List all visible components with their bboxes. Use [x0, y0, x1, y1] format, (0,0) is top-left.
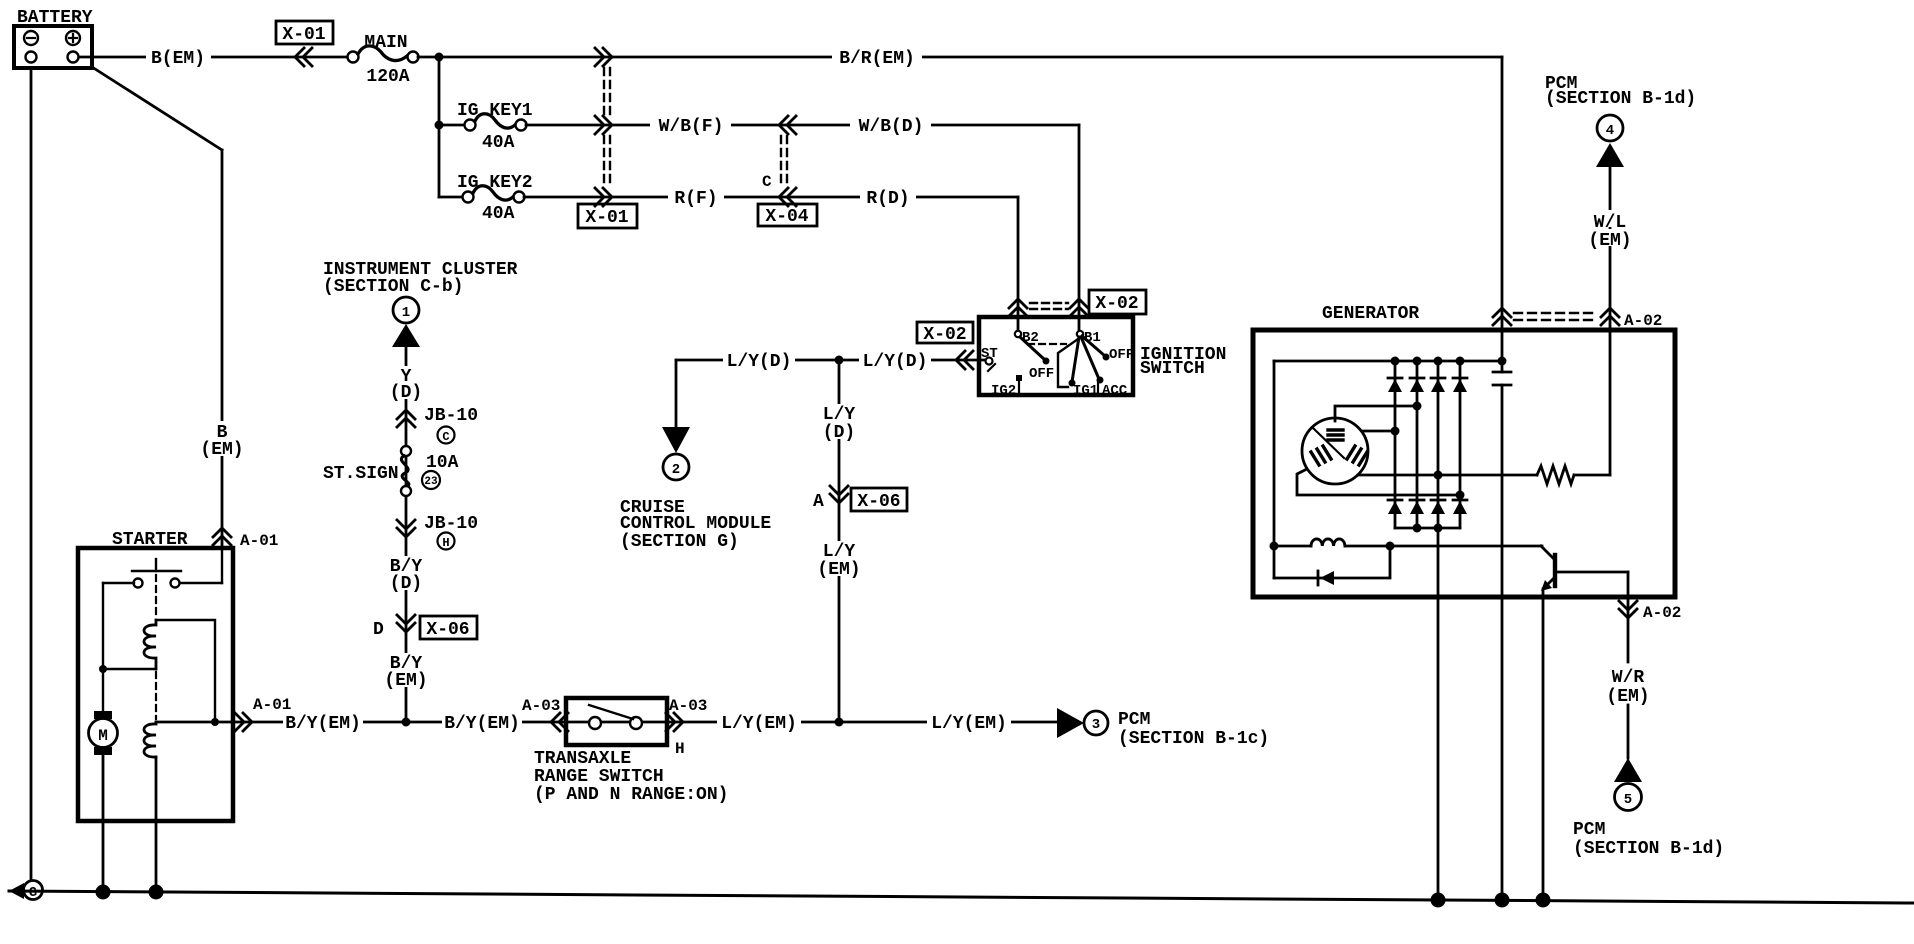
svg-text:X-02: X-02 — [1095, 294, 1138, 314]
node — [1386, 542, 1395, 551]
svg-text:B/Y(EM): B/Y(EM) — [285, 714, 361, 734]
svg-text:SWITCH: SWITCH — [1140, 359, 1205, 379]
switch blade — [589, 705, 633, 719]
wire branch to ignition fuses — [438, 57, 441, 197]
node — [1413, 524, 1422, 533]
arrow to instrument cluster — [392, 324, 420, 347]
transaxle range switch — [566, 698, 667, 745]
wire B(EM) battery to starter — [92, 67, 222, 150]
svg-text:4: 4 — [1606, 123, 1614, 139]
rectifier leg 4 — [1459, 361, 1462, 528]
ground bus — [9, 891, 1914, 903]
generator B+ bus — [1274, 360, 1502, 363]
svg-text:(SECTION G): (SECTION G) — [620, 532, 739, 552]
svg-text:(SECTION B-1d): (SECTION B-1d) — [1545, 89, 1696, 109]
ignition switch — [979, 317, 1133, 395]
svg-text:W/B(F): W/B(F) — [659, 117, 724, 137]
svg-text:X-06: X-06 — [426, 620, 469, 640]
stator phase wire 3 — [1358, 474, 1537, 477]
wire R(F)-R(D) — [524, 196, 1018, 199]
capacitor — [1493, 371, 1511, 374]
svg-text:PCM: PCM — [1118, 710, 1150, 730]
regulator transistor — [1541, 546, 1554, 559]
svg-text:MAIN: MAIN — [364, 33, 407, 53]
svg-text:C: C — [762, 173, 772, 191]
circle 2 — [663, 454, 689, 480]
svg-text:(D): (D) — [390, 574, 422, 594]
svg-text:120A: 120A — [366, 67, 409, 87]
svg-text:L/Y(EM): L/Y(EM) — [721, 714, 797, 734]
wire L/Y(D) to ignition switch ST — [676, 359, 985, 362]
wire W/B(D) down to ignition switch B1 — [1078, 125, 1081, 331]
starter solenoid contacts — [221, 548, 223, 583]
connector X-01 chevron on B(EM) — [295, 48, 312, 66]
svg-text:JB-10: JB-10 — [424, 406, 478, 426]
svg-text:D: D — [373, 620, 384, 640]
svg-text:L/Y(D): L/Y(D) — [727, 352, 792, 372]
ground node emitter — [1536, 893, 1551, 908]
connector X-06 pin D — [397, 615, 415, 632]
diode D8 — [1453, 501, 1467, 514]
connector A-02 chevrons (top) — [1493, 308, 1511, 325]
node: B/Y branch junction — [402, 718, 411, 727]
svg-text:(EM): (EM) — [200, 440, 243, 460]
svg-text:B(EM): B(EM) — [151, 49, 205, 69]
switch blade B1-OFF — [1082, 336, 1105, 356]
diode D4 — [1453, 379, 1467, 392]
svg-text:23: 23 — [424, 476, 438, 488]
svg-text:A-03: A-03 — [522, 697, 560, 715]
pin B2 — [1015, 331, 1021, 337]
svg-text:(EM): (EM) — [384, 671, 427, 691]
svg-text:L/Y(D): L/Y(D) — [863, 352, 928, 372]
svg-text:(EM): (EM) — [1588, 231, 1631, 251]
svg-text:(SECTION B-1c): (SECTION B-1c) — [1118, 729, 1269, 749]
battery — [14, 26, 92, 68]
solenoid plunger (dashed) — [155, 575, 157, 618]
svg-text:R(D): R(D) — [866, 189, 909, 209]
connector JB-10 H — [397, 520, 415, 537]
svg-text:L/Y(EM): L/Y(EM) — [931, 714, 1007, 734]
node — [1434, 357, 1443, 366]
diode D6 — [1410, 501, 1424, 514]
node — [1498, 357, 1507, 366]
wire B/R(EM) down into generator — [1501, 57, 1504, 372]
diode D1 — [1388, 379, 1402, 392]
svg-text:IG1: IG1 — [1073, 383, 1098, 399]
svg-text:A-01: A-01 — [253, 696, 291, 714]
connector X-02 chevrons above ignition switch — [1009, 299, 1027, 316]
svg-text:B/R(EM): B/R(EM) — [839, 49, 915, 69]
node — [99, 665, 107, 673]
svg-text:H: H — [442, 536, 449, 550]
field winding (rotor coil) — [1274, 545, 1311, 548]
connector X-04 chevrons — [779, 116, 796, 134]
circle 4 — [1597, 115, 1623, 141]
wire R(D) down to ignition switch B2 — [1017, 197, 1020, 331]
svg-text:G: G — [29, 885, 37, 901]
diode D3 — [1431, 379, 1445, 392]
svg-text:A-01: A-01 — [240, 532, 278, 550]
node — [1456, 357, 1465, 366]
wire bus to field — [1273, 361, 1276, 578]
svg-text:(EM): (EM) — [817, 560, 860, 580]
fuse IG KEY2 40A — [439, 196, 464, 199]
wire B/Y(EM) vertical — [385, 653, 427, 669]
svg-text:A-02: A-02 — [1624, 312, 1662, 330]
svg-text:40A: 40A — [482, 204, 515, 224]
svg-text:RANGE SWITCH: RANGE SWITCH — [534, 767, 664, 787]
svg-text:40A: 40A — [482, 133, 515, 153]
connector X-01 label (top) — [276, 21, 333, 44]
wire L/Y(D) down from junction — [838, 360, 841, 722]
node: L/Y(EM) junction — [835, 718, 844, 727]
circle 3 — [1084, 711, 1108, 735]
connector X-02 chevron on ST wire — [956, 351, 973, 369]
stator phase wire 2 — [1362, 430, 1395, 433]
svg-text:(SECTION C-b): (SECTION C-b) — [323, 277, 463, 297]
ground node starter coil — [149, 885, 164, 900]
arrow to PCM 5 — [1614, 758, 1642, 782]
svg-text:GENERATOR: GENERATOR — [1322, 304, 1419, 324]
fuse ST.SIGN 10A — [401, 446, 411, 456]
node — [1413, 357, 1422, 366]
svg-text:PCM: PCM — [1573, 820, 1605, 840]
svg-text:ACC: ACC — [1102, 383, 1128, 399]
svg-text:B/Y(EM): B/Y(EM) — [444, 714, 520, 734]
svg-text:(D): (D) — [390, 383, 422, 403]
connector JB-10 C — [397, 410, 415, 427]
flyback diode loop — [1274, 546, 1390, 578]
svg-text:M: M — [98, 727, 108, 745]
node: fuse branch junction — [435, 53, 444, 62]
ground node capacitor — [1495, 893, 1510, 908]
solenoid pull-in coil — [144, 620, 156, 669]
svg-text:1: 1 — [402, 305, 410, 321]
ground node rectifier — [1431, 893, 1446, 908]
wire coil to ground — [155, 757, 158, 893]
wire coil top loop — [156, 620, 215, 722]
diode D5 — [1388, 501, 1402, 514]
svg-text:A-02: A-02 — [1643, 604, 1681, 622]
node — [211, 718, 219, 726]
svg-text:X-04: X-04 — [765, 207, 808, 227]
diode D2 — [1410, 379, 1424, 392]
svg-text:5: 5 — [1624, 792, 1632, 808]
svg-text:X-06: X-06 — [857, 492, 900, 512]
svg-text:(P AND N RANGE:ON): (P AND N RANGE:ON) — [534, 785, 728, 805]
connector A-01 chevron (starter feed) — [213, 528, 231, 545]
rectifier leg 2 — [1416, 361, 1419, 528]
wire W/L(EM) — [1609, 167, 1612, 475]
node — [1270, 542, 1279, 551]
svg-text:IG2: IG2 — [991, 383, 1016, 399]
switch blade B1-ACC — [1081, 337, 1099, 379]
circle 1 — [393, 297, 419, 323]
resistor — [1537, 466, 1574, 484]
generator — [1253, 330, 1675, 597]
svg-text:(D): (D) — [823, 423, 855, 443]
wire W/R(EM) — [1608, 666, 1648, 683]
rectifier leg 3 / neutral to ground — [1437, 361, 1440, 901]
wire motor to ground — [102, 755, 105, 893]
node — [1391, 357, 1400, 366]
wire coil to motor branch — [103, 668, 156, 670]
switch blade B1-IG1 — [1072, 337, 1079, 382]
wire base to A-02 — [1627, 572, 1630, 662]
node — [1434, 524, 1443, 533]
svg-text:JB-10: JB-10 — [424, 514, 478, 534]
svg-text:R(F): R(F) — [674, 189, 717, 209]
svg-text:X-01: X-01 — [282, 25, 325, 45]
connector X-02 label box (left) — [917, 322, 973, 343]
pin ACC — [1097, 381, 1099, 393]
wire B/Y(D) — [385, 556, 427, 572]
svg-text:H: H — [675, 740, 685, 758]
stator winding — [1302, 418, 1368, 484]
wire battery negative to ground — [30, 68, 33, 883]
svg-text:3: 3 — [1092, 717, 1100, 733]
wire to cruise control module — [675, 360, 678, 427]
svg-text:X-02: X-02 — [923, 325, 966, 345]
svg-text:(SECTION B-1d): (SECTION B-1d) — [1573, 839, 1724, 859]
rectifier leg 1 — [1394, 361, 1397, 528]
connector X-01 (harness pass-through) chevrons — [595, 48, 612, 66]
svg-text:C: C — [442, 430, 449, 444]
pin B1 — [1077, 331, 1083, 337]
svg-text:W/B(D): W/B(D) — [859, 117, 924, 137]
connector A-02 chevron (bottom) — [1619, 601, 1637, 618]
arrow to cruise control — [662, 427, 690, 453]
ground symbol G — [9, 883, 24, 899]
rectifier lower bus — [1395, 527, 1460, 530]
wire capacitor to ground — [1501, 385, 1504, 901]
wire W/B(F)-W/B(D) — [526, 124, 1079, 127]
connector X-06 pin A — [830, 486, 848, 503]
wire Y(D) down from instrument cluster — [405, 347, 408, 722]
circle 5 — [1615, 784, 1642, 811]
arrow to PCM 4 — [1596, 143, 1624, 167]
svg-text:OFF: OFF — [1109, 347, 1134, 363]
svg-text:OFF: OFF — [1029, 366, 1054, 382]
svg-text:2: 2 — [672, 462, 680, 478]
svg-text:IG KEY2: IG KEY2 — [457, 173, 533, 193]
ground node starter motor — [96, 885, 111, 900]
solenoid hold-in coil — [144, 722, 156, 757]
wire emitter to ground — [1542, 589, 1545, 901]
svg-text:ST.SIGN: ST.SIGN — [323, 464, 399, 484]
svg-text:X-01: X-01 — [585, 208, 628, 228]
mechanical link (dashed) — [1028, 343, 1066, 345]
wire B(EM) battery to fuse — [79, 56, 349, 59]
connector A-01 chevron on B/Y(EM) — [235, 713, 252, 731]
connector X-02 label box (right) — [1089, 290, 1146, 314]
switch common link — [1058, 339, 1078, 387]
svg-text:TRANSAXLE: TRANSAXLE — [534, 749, 631, 769]
wire B/Y(EM) / L/Y(EM) bottom run — [156, 721, 1058, 724]
svg-text:A: A — [813, 492, 824, 512]
diode D7 — [1431, 501, 1445, 514]
stator phase wire 1 — [1335, 406, 1417, 421]
stator neutral wire — [1297, 469, 1460, 495]
fuse IG KEY1 40A — [439, 124, 466, 127]
switch blade B2-OFF — [1020, 337, 1045, 360]
node: L/Y branch junction — [835, 356, 844, 365]
starter motor M — [89, 719, 118, 748]
starter — [78, 548, 233, 821]
svg-text:CONTROL MODULE: CONTROL MODULE — [620, 514, 771, 534]
wire contact to motor — [103, 582, 134, 584]
arrow to PCM 3 — [1057, 708, 1084, 738]
wire B/R(EM) — [418, 56, 1502, 59]
